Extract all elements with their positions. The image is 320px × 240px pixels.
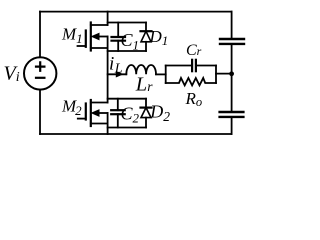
wire mid node to inductor	[108, 73, 127, 75]
wire bottom rail	[40, 133, 232, 135]
arrow iL current	[116, 72, 122, 77]
inductor Lr	[126, 65, 156, 74]
wire half-bridge vertical drain M1	[107, 12, 109, 25]
wire top rail	[40, 11, 232, 13]
resistor Ro	[166, 78, 216, 85]
capacitor output bottom	[220, 112, 244, 117]
wire tank output to node	[216, 73, 232, 75]
wire left rail upper (Vi to top)	[39, 12, 41, 58]
wire tank block right edge	[215, 66, 217, 84]
source Vi circle	[24, 57, 56, 89]
wire tank block top edge left	[166, 65, 192, 67]
transistor M1	[78, 23, 108, 51]
wire right rail segments	[231, 12, 233, 39]
transistor M2	[78, 100, 108, 126]
wire tank block top edge right	[196, 65, 216, 67]
wire inductor to tank block	[156, 73, 166, 75]
wire half-bridge vertical mid	[107, 37, 109, 103]
wire tank block left edge	[165, 66, 167, 84]
wire C2 D2 bottom rail	[108, 127, 146, 129]
capacitor C2	[111, 99, 125, 128]
capacitor output top	[220, 39, 244, 44]
wire left rail lower (Vi to bottom)	[39, 90, 41, 134]
wire C1 D1 bottom rail	[108, 50, 146, 52]
wire C2 D2 top rail	[108, 98, 146, 100]
capacitor Cr	[192, 60, 196, 71]
wire half-bridge vertical bottom	[107, 113, 109, 134]
capacitor C1	[112, 23, 126, 52]
diode D2	[141, 99, 152, 128]
Vi minus sign	[36, 77, 44, 79]
wire C1 D1 top rail	[108, 22, 146, 24]
diode D1	[141, 23, 152, 52]
Vi plus sign	[36, 62, 44, 70]
svg-text:Cr: Cr	[186, 42, 202, 59]
node junction dot	[229, 71, 234, 76]
